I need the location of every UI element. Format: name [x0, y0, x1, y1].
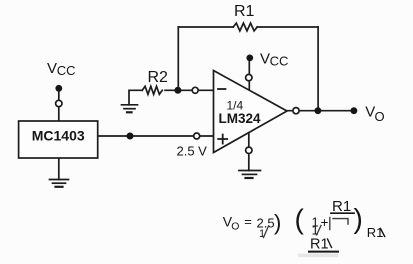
resistor R2	[142, 69, 168, 94]
pin circle (op-amp VCC pin)	[246, 74, 252, 80]
power VCC (MC1403)	[47, 60, 76, 92]
svg-text:R1: R1	[234, 3, 255, 20]
formula VO = 2.5 (1 + R1/R2)	[223, 198, 385, 257]
svg-text:1: 1	[259, 228, 265, 240]
pin label minus (inverting input)	[218, 88, 226, 90]
svg-text:V: V	[260, 50, 270, 67]
junction node (inverting input / R2-R1)	[174, 87, 181, 94]
pin label plus (non-inverting input)	[218, 135, 227, 144]
wire MC1403 output to op-amp + input (2.5V node)	[98, 135, 214, 137]
resistor R1	[233, 3, 257, 31]
ground (below MC1403)	[50, 180, 69, 187]
svg-text:O: O	[231, 221, 239, 233]
node label VO	[365, 104, 384, 124]
junction node (output / feedback)	[315, 107, 322, 114]
svg-text:LM324: LM324	[219, 111, 262, 126]
ground (below op-amp)	[239, 171, 261, 179]
svg-text:V: V	[47, 60, 57, 77]
svg-text:+: +	[321, 215, 329, 230]
svg-text:R1: R1	[310, 236, 329, 252]
svg-text:O: O	[375, 109, 385, 124]
wire R2 left lead to ground	[129, 90, 142, 105]
wire R2 right lead to inverting input node	[165, 89, 214, 91]
svg-text:MC1403: MC1403	[32, 128, 85, 144]
junction node (VO terminal)	[351, 107, 358, 114]
junction node (MC1403 output)	[127, 133, 134, 140]
wire op-amp VCC pin	[248, 58, 250, 90]
op-amp U1 1/4 LM324	[214, 71, 288, 153]
pin circle (non-inverting input pin)	[194, 133, 200, 139]
ground (left of R2)	[122, 105, 138, 113]
pin circle (inverting input pin)	[192, 87, 198, 93]
svg-text:): )	[274, 210, 281, 235]
wire feedback top left segment	[178, 26, 233, 28]
pin circle (op-amp ground pin)	[246, 147, 252, 153]
svg-text:CC: CC	[270, 53, 289, 68]
svg-text:=: =	[244, 214, 252, 229]
wire MC1403 bottom to ground	[58, 158, 60, 180]
wire op-amp output to VO	[287, 110, 354, 112]
wire feedback top right segment	[257, 26, 318, 28]
svg-text:CC: CC	[57, 63, 76, 78]
svg-text:2.5 V: 2.5 V	[177, 144, 208, 159]
svg-text:(: (	[295, 204, 305, 235]
wire op-amp ground pin	[248, 133, 250, 171]
svg-text:): )	[354, 203, 363, 234]
wire feedback left vertical	[177, 27, 179, 90]
svg-text:R2: R2	[148, 69, 169, 86]
pin circle (op-amp output pin)	[293, 108, 299, 114]
wire VCC pin to MC1403 top	[58, 88, 60, 121]
wire feedback right vertical to output	[317, 27, 319, 111]
voltage reference MC1403	[19, 121, 98, 158]
pin circle (MC1403 VCC pin)	[56, 100, 62, 106]
power VCC (op-amp)	[246, 50, 288, 68]
svg-text:R1: R1	[367, 225, 384, 240]
